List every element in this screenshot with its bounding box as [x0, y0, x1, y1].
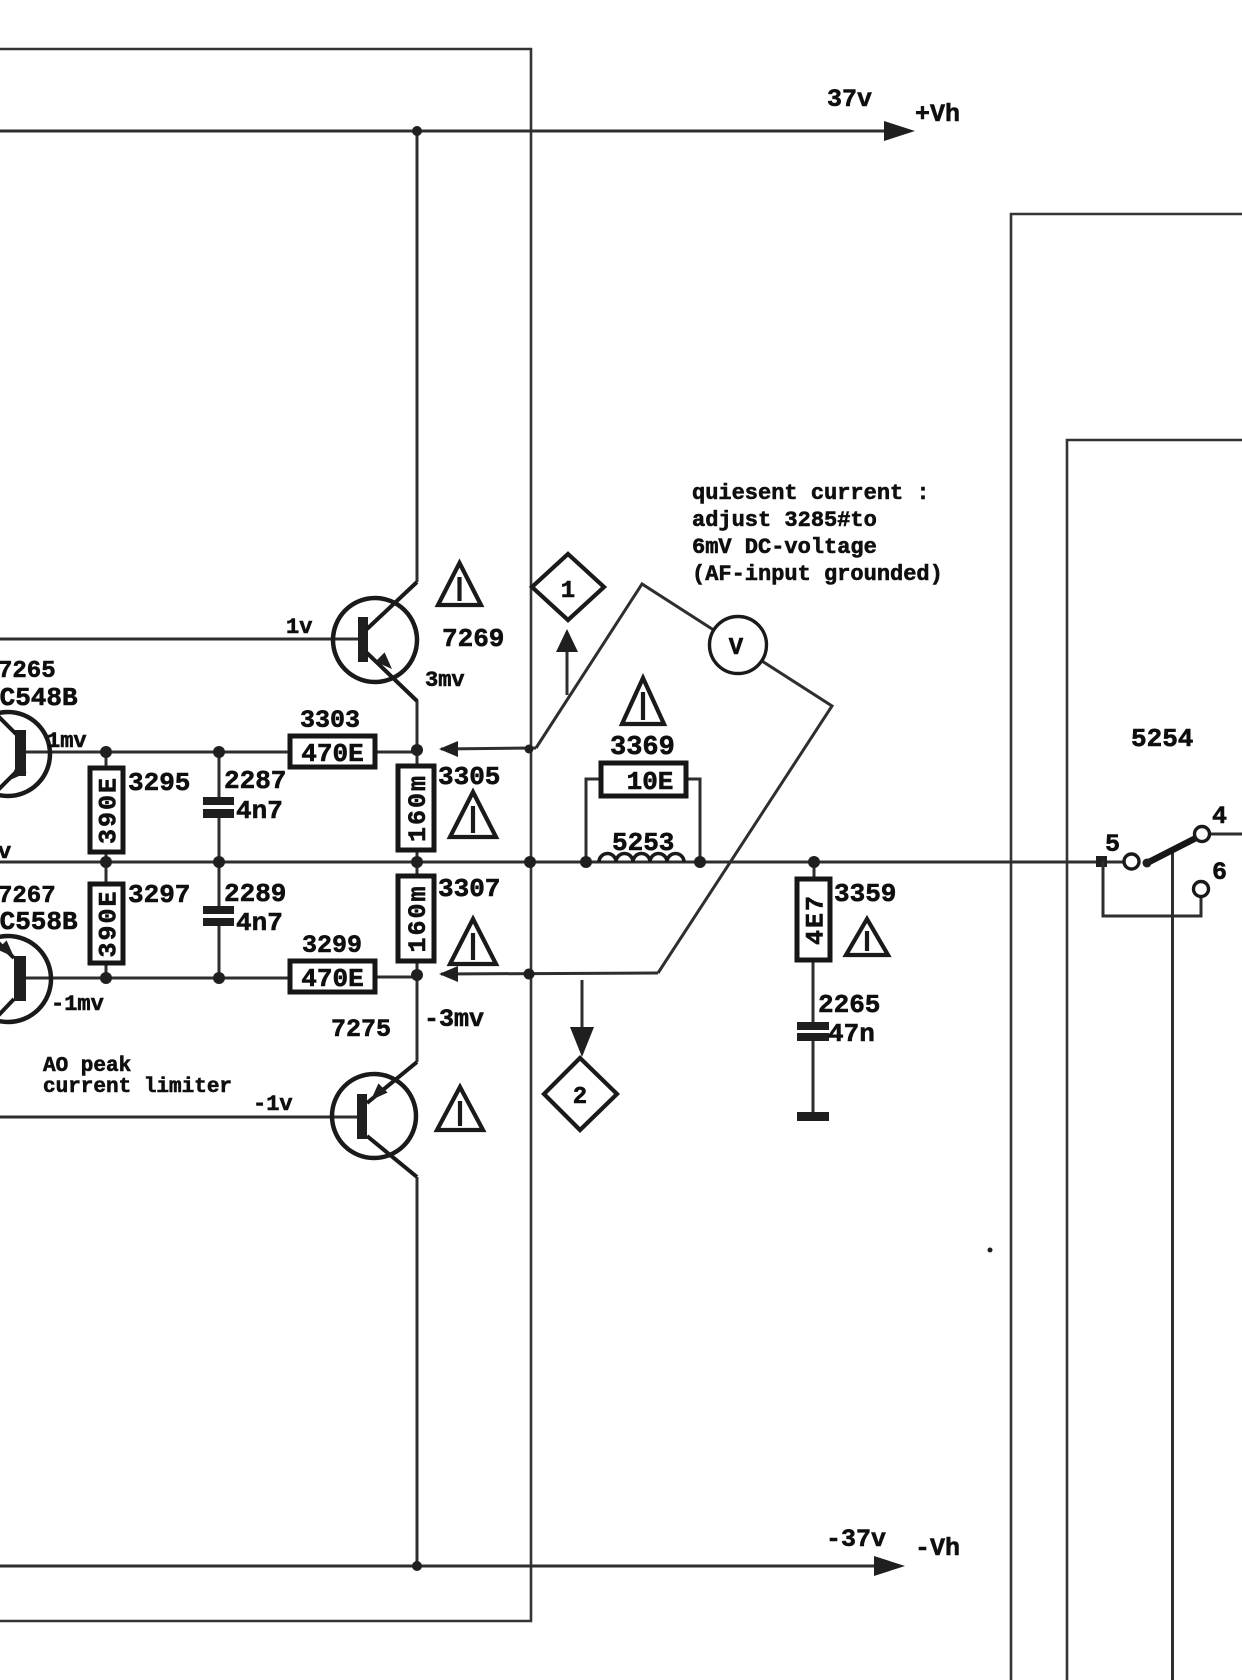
svg-text:current limiter: current limiter — [43, 1076, 232, 1099]
svg-text:470E: 470E — [301, 964, 363, 994]
svg-text:7275: 7275 — [331, 1015, 391, 1044]
svg-text:-1v: -1v — [253, 1092, 293, 1117]
svg-text:3297: 3297 — [128, 880, 190, 910]
svg-text:-Vh: -Vh — [915, 1534, 960, 1563]
svg-text:390E: 390E — [95, 889, 124, 957]
svg-text:2265: 2265 — [818, 990, 880, 1020]
svg-text:6: 6 — [1212, 858, 1227, 887]
svg-text:7265: 7265 — [0, 658, 56, 685]
svg-text:160m: 160m — [404, 884, 433, 952]
svg-text:2: 2 — [573, 1084, 587, 1111]
svg-text:4n7: 4n7 — [236, 908, 283, 938]
svg-text:5253: 5253 — [612, 828, 674, 858]
svg-text:4: 4 — [1212, 802, 1227, 831]
svg-text:3299: 3299 — [302, 931, 362, 960]
svg-text:470E: 470E — [301, 739, 363, 769]
svg-text:BC548B: BC548B — [0, 683, 78, 713]
svg-text:(AF-input grounded): (AF-input grounded) — [692, 562, 943, 587]
svg-text:47n: 47n — [828, 1019, 875, 1049]
svg-text:3305: 3305 — [438, 762, 500, 792]
svg-text:7267: 7267 — [0, 883, 56, 910]
svg-text:5254: 5254 — [1131, 724, 1193, 754]
svg-text:3mv: 3mv — [425, 668, 465, 693]
svg-text:5: 5 — [1105, 830, 1120, 859]
svg-text:-3mv: -3mv — [424, 1005, 484, 1034]
svg-text:3307: 3307 — [438, 874, 500, 904]
svg-text:quiesent current :: quiesent current : — [692, 481, 930, 506]
svg-text:adjust 3285#to: adjust 3285#to — [692, 508, 877, 533]
svg-text:+Vh: +Vh — [915, 100, 960, 129]
svg-text:10E: 10E — [627, 767, 674, 797]
svg-text:V: V — [729, 635, 744, 662]
svg-text:BC558B: BC558B — [0, 907, 78, 937]
svg-text:2287: 2287 — [224, 766, 286, 796]
svg-text:7269: 7269 — [442, 624, 504, 654]
svg-text:1v: 1v — [286, 615, 312, 640]
svg-text:1mv: 1mv — [47, 729, 87, 754]
svg-text:3359: 3359 — [834, 879, 896, 909]
svg-text:v: v — [0, 840, 11, 865]
svg-text:6mV DC-voltage: 6mV DC-voltage — [692, 535, 877, 560]
svg-text:3369: 3369 — [610, 733, 675, 763]
svg-text:3295: 3295 — [128, 768, 190, 798]
svg-text:1: 1 — [561, 578, 575, 605]
svg-text:2289: 2289 — [224, 879, 286, 909]
svg-text:4n7: 4n7 — [236, 796, 283, 826]
svg-text:37v: 37v — [827, 85, 872, 114]
svg-text:AO peak: AO peak — [43, 1055, 131, 1078]
svg-text:4E7: 4E7 — [802, 894, 831, 945]
svg-text:-37v: -37v — [826, 1525, 886, 1554]
svg-text:160m: 160m — [404, 774, 433, 842]
svg-text:3303: 3303 — [300, 706, 360, 735]
svg-text:390E: 390E — [95, 776, 124, 844]
svg-text:-1mv: -1mv — [51, 992, 104, 1017]
